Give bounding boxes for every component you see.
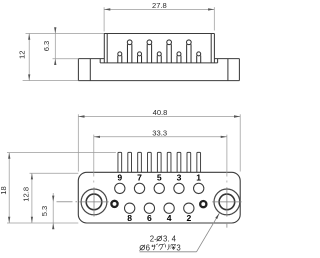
dim 6.3 — [54, 29, 56, 64]
terminal tab 8 — [187, 152, 191, 172]
pin contact 9 (short) — [197, 52, 201, 63]
dim 12 — [28, 33, 30, 80]
svg-text:18: 18 — [0, 186, 8, 194]
pin contact 4 (tall) — [147, 40, 152, 63]
pin contact 7 (short) — [177, 52, 181, 63]
diameter symbol line1 — [157, 236, 162, 242]
note text line1: 2-dia3.4 — [150, 235, 177, 244]
insulator floor — [100, 62, 217, 64]
katakana ri — [166, 244, 169, 250]
extension line (to rim level, left) — [26, 33, 105, 35]
svg-text:9: 9 — [117, 173, 122, 183]
svg-text:5.3: 5.3 — [40, 206, 49, 217]
flange notch right — [217, 59, 219, 63]
flange ear divider left — [89, 59, 91, 81]
svg-text:6: 6 — [146, 243, 150, 252]
contact hole 1 — [194, 183, 204, 193]
dim 33.3 — [93, 135, 95, 177]
terminal tab 1 — [118, 152, 122, 172]
pin contact 5 (short) — [157, 52, 161, 63]
katakana za — [151, 244, 157, 250]
svg-text:7: 7 — [137, 173, 142, 183]
leader to mounting hole — [197, 213, 220, 252]
bottom extension line — [7, 222, 78, 224]
pin contact 3 (short) — [138, 52, 142, 63]
dim 12.8 — [30, 172, 79, 174]
pin contact 6 (tall) — [167, 40, 172, 63]
svg-text:5: 5 — [157, 173, 162, 183]
dim 40.8 — [77, 114, 79, 171]
svg-text:12: 12 — [17, 51, 26, 59]
dim 5.3 — [52, 193, 54, 228]
terminal tab 9 — [197, 152, 201, 172]
contact hole 3 — [174, 183, 184, 193]
svg-text:33.3: 33.3 — [152, 129, 167, 138]
note underline — [140, 251, 197, 253]
svg-text:4: 4 — [172, 235, 177, 244]
mounting hole right (counterbore) — [214, 189, 240, 215]
kanji depth — [170, 244, 176, 250]
contact hole 4 — [164, 203, 174, 213]
note text line2: dia6 counterbore depth3 — [140, 245, 145, 251]
connector side view: insulator rim — [104, 33, 214, 35]
pin contact 1 (short) — [118, 52, 122, 63]
svg-text:40.8: 40.8 — [153, 108, 168, 117]
centerlines right hole — [212, 201, 241, 203]
centerline right hole lower dash — [226, 224, 228, 228]
flange notch left — [99, 59, 101, 63]
svg-text:1: 1 — [196, 173, 201, 183]
svg-text:2-: 2- — [150, 235, 157, 244]
contact hole 7 — [134, 183, 144, 193]
contact hole 5 — [154, 183, 164, 193]
guide hole left — [111, 201, 117, 207]
svg-text:8: 8 — [127, 213, 132, 223]
insulator left wall — [103, 34, 105, 63]
insulator right wall — [210, 34, 212, 63]
contact hole 2 — [184, 203, 194, 213]
dim 18 — [7, 152, 116, 154]
terminal tab 5 — [157, 152, 161, 172]
dim 27.8 — [103, 7, 105, 31]
flange ear divider right — [227, 59, 229, 81]
svg-text:6: 6 — [147, 213, 152, 223]
svg-text:4: 4 — [167, 213, 172, 223]
connector front view body — [78, 172, 240, 223]
contact hole 8 — [125, 203, 135, 213]
terminal tab 7 — [177, 152, 181, 172]
contact hole 9 — [115, 183, 125, 193]
svg-text:6.3: 6.3 — [42, 41, 51, 52]
guide hole right — [200, 201, 206, 207]
svg-text:3: 3 — [176, 243, 180, 252]
terminal tab 4 — [148, 152, 152, 172]
centerlines left hole — [79, 201, 108, 203]
svg-text:3: 3 — [177, 173, 182, 183]
flange outline — [78, 58, 104, 60]
katakana gu — [158, 244, 164, 250]
contact hole 6 — [144, 203, 154, 213]
terminal tab 3 — [138, 152, 142, 172]
svg-text:12.8: 12.8 — [22, 187, 31, 202]
svg-text:27.8: 27.8 — [152, 1, 167, 10]
mounting hole left (counterbore) — [81, 189, 107, 215]
svg-text:3.: 3. — [163, 235, 170, 244]
svg-text:2: 2 — [186, 213, 191, 223]
terminal tab 6 — [167, 152, 171, 172]
pin contact 8 (tall) — [186, 40, 191, 63]
pin contact 2 (tall) — [127, 40, 132, 63]
terminal tab 2 — [128, 152, 132, 172]
